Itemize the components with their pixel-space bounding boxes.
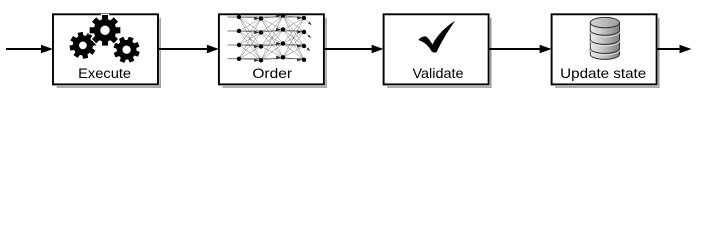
shadow of box Validate	[490, 18, 492, 88]
shadow of box Order	[325, 18, 327, 88]
database icon: top ellipse	[590, 17, 619, 27]
gears icon: top gear	[89, 14, 121, 46]
arrow into Execute	[6, 48, 43, 50]
arrow Validate to Update-state	[489, 48, 541, 50]
order icon: nodes	[237, 13, 306, 62]
svg-text:Validate: Validate	[413, 65, 464, 81]
shadow of box Execute	[159, 18, 161, 88]
order icon: row arrowheads	[0, 0, 1, 1]
order icon: mesh arrowheads	[254, 14, 311, 62]
database icon: body	[590, 23, 619, 60]
database icon: separator arc 3	[590, 48, 619, 53]
gears icon: left gear	[69, 31, 97, 59]
svg-text:Order: Order	[252, 65, 292, 81]
arrow Order to Validate	[324, 48, 373, 50]
database icon: separator arc 2	[590, 39, 619, 44]
svg-text:Update state: Update state	[560, 65, 646, 81]
gears icon: right gear	[113, 36, 141, 64]
box Order	[219, 14, 324, 84]
box Validate	[384, 14, 489, 84]
box Update-state	[552, 14, 657, 84]
order icon: row lines	[228, 17, 304, 59]
database icon: separator arc 1	[590, 30, 619, 35]
box Execute	[53, 14, 158, 84]
order icon: mesh edges	[239, 16, 312, 61]
shadow of box Update-state	[658, 18, 660, 88]
checkmark icon	[418, 21, 455, 53]
arrow out of Update-state	[657, 48, 681, 50]
svg-text:Execute: Execute	[78, 65, 131, 81]
arrow Execute to Order	[158, 48, 208, 50]
